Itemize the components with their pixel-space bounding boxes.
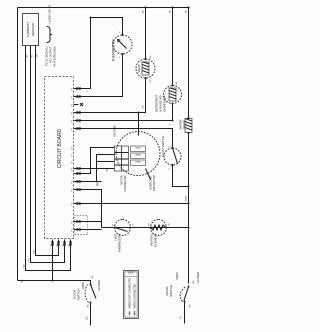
svg-text:OPEN: OPEN	[175, 272, 179, 279]
limit thermostat	[113, 220, 135, 253]
tiny wire color labels	[24, 91, 188, 268]
svg-text:P1-16 (SIGNAL): P1-16 (SIGNAL)	[45, 46, 49, 66]
svg-text:ELEMENT: ELEMENT	[154, 233, 158, 247]
circuit board box	[45, 77, 74, 239]
svg-text:OR: OR	[34, 250, 36, 254]
wire dispenser from rail	[172, 8, 174, 85]
motor connector wires	[74, 148, 115, 186]
svg-text:FLOAT SWITCH: FLOAT SWITCH	[161, 136, 165, 157]
svg-text:P2: P2	[72, 154, 74, 156]
svg-text:P4: P4	[72, 221, 74, 223]
svg-text:BU: BU	[97, 182, 99, 185]
svg-text:THERMISTOR: THERMISTOR	[111, 39, 115, 62]
svg-text:OPEN: OPEN	[81, 282, 85, 289]
svg-text:START: START	[135, 161, 142, 164]
svg-text:VALVE: VALVE	[182, 120, 186, 129]
svg-text:P2: P2	[72, 203, 74, 205]
svg-text:W: W	[32, 55, 34, 58]
svg-text:P1: P1	[63, 244, 65, 246]
svg-text:N: N	[179, 316, 183, 318]
svg-text:BU: BU	[24, 264, 26, 267]
svg-text:BU: BU	[27, 54, 29, 57]
wire vent to rail	[145, 8, 147, 59]
svg-text:CLOSED: CLOSED	[196, 272, 200, 283]
svg-text:P2: P2	[72, 181, 74, 183]
svg-text:+ \u2014 12V DC: + \u2014 12V DC	[48, 4, 52, 24]
dispenser solenoid	[155, 81, 182, 112]
svg-text:PROTECTOR: PROTECTOR	[153, 175, 156, 191]
svg-text:SENSOR: SENSOR	[31, 22, 35, 36]
wire float to neutral	[173, 165, 189, 187]
wire thermistor feed	[74, 18, 123, 89]
svg-text:P1: P1	[57, 244, 59, 246]
svg-text:V: V	[169, 146, 171, 148]
wire pin to door rail	[52, 240, 54, 281]
svg-text:KEY: KEY	[128, 271, 134, 275]
svg-text:Y: Y	[88, 91, 90, 93]
svg-text:W: W	[169, 223, 171, 226]
wire right rail	[18, 7, 189, 9]
wire L1 entry	[90, 303, 92, 326]
svg-text:WIRES NOT CONNECTED: WIRES NOT CONNECTED	[129, 278, 132, 309]
svg-text:BU: BU	[186, 198, 188, 201]
svg-text:BK: BK	[22, 279, 24, 282]
bottom pin stubs	[77, 88, 81, 231]
svg-text:P3: P3	[72, 128, 74, 130]
svg-text:SWITCH: SWITCH	[77, 289, 81, 301]
svg-text:BK: BK	[143, 10, 145, 13]
svg-text:BK: BK	[170, 10, 172, 13]
svg-text:BK: BK	[176, 81, 178, 84]
svg-text:CONNECTOR: CONNECTOR	[124, 175, 127, 191]
svg-text:R: R	[113, 224, 115, 226]
svg-text:VENT: VENT	[137, 64, 141, 72]
small dashed connector box	[75, 216, 88, 235]
svg-text:PK: PK	[143, 105, 145, 108]
svg-text:P3: P3	[72, 112, 74, 114]
svg-text:Y: Y	[170, 124, 172, 126]
svg-text:P2: P2	[72, 147, 74, 149]
overload protector	[146, 169, 157, 191]
svg-text:DISPENSER: DISPENSER	[163, 95, 167, 111]
unused pin X	[74, 103, 84, 106]
svg-text:P3: P3	[72, 88, 74, 90]
wire thermistor return	[74, 55, 123, 97]
door switch DS2	[165, 272, 200, 307]
wire door switch 1 drop	[18, 281, 91, 285]
wire heater feed	[74, 182, 102, 230]
svg-text:THERMOSTAT: THERMOSTAT	[118, 233, 122, 252]
wire vent feed	[74, 79, 146, 113]
svg-text:BK: BK	[190, 304, 192, 307]
key legend box	[124, 271, 139, 319]
wire turbidity lead 3	[36, 46, 59, 256]
svg-text:BK: BK	[193, 280, 195, 283]
vent solenoid	[136, 55, 155, 82]
svg-text:BK: BK	[186, 195, 188, 198]
svg-text:Y: Y	[120, 31, 122, 33]
wire turbidity lead 2	[31, 46, 65, 263]
svg-text:BK: BK	[92, 275, 94, 278]
svg-text:SWITCH: SWITCH	[169, 285, 173, 297]
motor connector	[115, 146, 129, 192]
door switch DS1	[73, 275, 102, 307]
svg-text:L1: L1	[85, 316, 89, 320]
svg-text:TURBIDITY: TURBIDITY	[26, 22, 30, 38]
svg-text:BK: BK	[150, 55, 152, 58]
wire neutral line	[188, 8, 190, 284]
bracket 12V DC	[47, 27, 53, 43]
svg-text:Y: Y	[120, 56, 122, 58]
wire heater branch	[102, 227, 189, 229]
svg-text:P1: P1	[51, 244, 53, 246]
svg-text:CLOSED: CLOSED	[97, 280, 101, 291]
wire neutral entry	[184, 302, 186, 324]
svg-text:P3: P3	[72, 96, 74, 98]
svg-text:P3: P3	[72, 104, 74, 106]
svg-text:OR: OR	[37, 54, 39, 58]
svg-text:WIRES CONNECTED: WIRES CONNECTED	[134, 284, 137, 309]
wire dispenser to pin	[74, 104, 173, 121]
svg-text:P3: P3	[72, 120, 74, 122]
heating element	[149, 220, 171, 247]
svg-text:BK: BK	[186, 10, 188, 13]
svg-text:P2: P2	[72, 168, 74, 170]
svg-text:P2: P2	[72, 161, 74, 163]
svg-text:R: R	[133, 224, 135, 226]
svg-text:P2- OUTPUT: P2- OUTPUT	[49, 46, 53, 62]
tiny pin labels	[51, 88, 74, 246]
svg-text:V: V	[169, 168, 171, 170]
left edge pin connectors	[52, 242, 72, 246]
turbidity sensor box	[23, 14, 39, 46]
svg-text:CIRCUIT BOARD: CIRCUIT BOARD	[57, 128, 63, 168]
svg-text:P1-9 (GROUND): P1-9 (GROUND)	[53, 46, 57, 66]
svg-text:MOTOR: MOTOR	[113, 125, 117, 137]
motor	[113, 125, 161, 176]
wire turbidity lead 1	[26, 46, 71, 271]
wire neutral join	[74, 203, 189, 205]
svg-text:MAIN: MAIN	[136, 154, 141, 157]
svg-text:HIGH: HIGH	[136, 148, 141, 150]
float switch	[161, 136, 181, 169]
svg-text:P4: P4	[72, 229, 74, 231]
water valve	[179, 117, 193, 134]
wire float switch feed	[74, 129, 173, 148]
svg-text:P2: P2	[72, 189, 74, 191]
svg-text:W: W	[149, 223, 151, 226]
svg-text:PK: PK	[150, 79, 152, 82]
thermistor	[111, 31, 132, 62]
svg-text:P1: P1	[69, 244, 71, 246]
svg-text:BK: BK	[88, 304, 90, 307]
wire top rail L1	[17, 8, 19, 281]
wire motor top feed	[138, 113, 140, 136]
